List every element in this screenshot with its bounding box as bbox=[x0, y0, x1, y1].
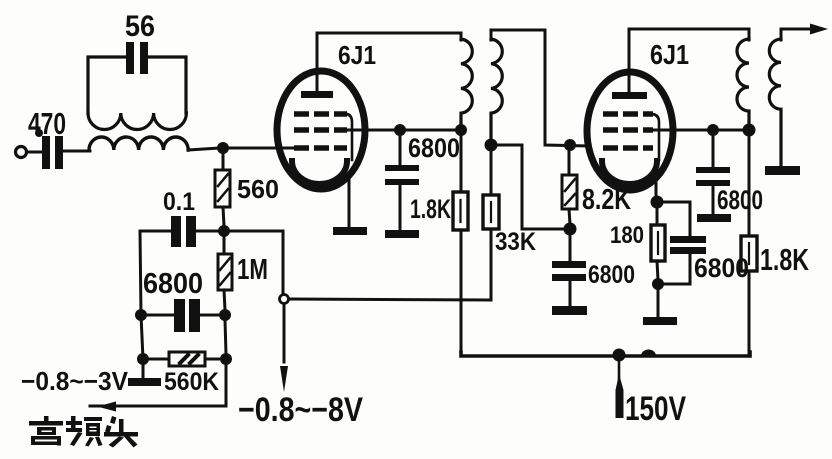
wire bbox=[27, 151, 42, 154]
svg-text:470: 470 bbox=[28, 106, 66, 141]
V1 top wire bbox=[317, 33, 461, 40]
svg-text:6800: 6800 bbox=[408, 133, 460, 163]
svg-text:1.8K: 1.8K bbox=[410, 194, 451, 224]
capacitor C1 470 bbox=[35, 129, 63, 169]
input terminal J1 bbox=[16, 147, 27, 158]
V2 plate bbox=[612, 92, 647, 99]
V1 grid rows bbox=[294, 114, 347, 148]
wire to V1 grid bbox=[228, 147, 295, 150]
wire bbox=[188, 148, 220, 150]
glyph 频 bbox=[71, 416, 76, 430]
AGC out wire to tuner bbox=[90, 364, 226, 406]
resistor R5 33K bbox=[490, 150, 493, 195]
V2 screen wire bbox=[653, 129, 749, 132]
tube V1 6J1 bbox=[277, 71, 365, 189]
svg-text:180: 180 bbox=[610, 222, 644, 249]
capacitor C8 6800 screen bypass bbox=[712, 135, 715, 167]
V2 top wire bbox=[629, 29, 749, 40]
V2 cathode bbox=[602, 161, 657, 184]
ground V1 cathode bbox=[333, 227, 367, 235]
resistor R3 560K bbox=[148, 358, 169, 361]
capacitor C5 6800 bbox=[399, 135, 402, 167]
node sec bottom bbox=[485, 139, 498, 152]
resistor R4 1.8K bbox=[460, 135, 463, 192]
capacitor C2 56 bbox=[126, 42, 148, 74]
transformer T1 primary bbox=[461, 39, 472, 126]
svg-text:0.1: 0.1 bbox=[163, 188, 195, 216]
resistor R7 180 bbox=[656, 207, 659, 225]
transformer T1 secondary bbox=[491, 30, 588, 146]
capacitor C6 6800 bbox=[569, 234, 572, 261]
V1 suppressor tie bbox=[347, 114, 352, 160]
svg-text:33K: 33K bbox=[495, 228, 536, 256]
V2 grid rows bbox=[603, 114, 653, 148]
svg-text:1M: 1M bbox=[237, 254, 268, 286]
V1 screen wire bbox=[347, 129, 461, 132]
transformer T2 primary bbox=[737, 39, 749, 126]
tube V2 6J1 bbox=[587, 72, 673, 190]
wire left column bbox=[140, 231, 143, 359]
svg-text:6800: 6800 bbox=[588, 261, 635, 289]
B+ bus 150V bbox=[461, 352, 750, 356]
node cath bias bottom bbox=[652, 278, 664, 290]
node AGC open bbox=[280, 295, 289, 304]
svg-text:6800: 6800 bbox=[717, 185, 763, 215]
ground T2 bbox=[765, 166, 800, 175]
wire bbox=[63, 150, 90, 153]
V1 cathode bbox=[292, 161, 347, 184]
capacitor C7 6800 cathode bbox=[662, 202, 690, 236]
svg-text:560K: 560K bbox=[164, 368, 219, 396]
node grid2 bbox=[564, 139, 576, 151]
inductor L1 bbox=[89, 137, 188, 150]
arrow -8V bbox=[280, 366, 288, 392]
node cath2 net bbox=[564, 223, 577, 236]
svg-text:6J1: 6J1 bbox=[650, 39, 689, 70]
V2 suppressor tie bbox=[653, 114, 659, 160]
resistor R2 1M bbox=[223, 236, 226, 254]
node cath2 bbox=[651, 196, 664, 209]
resistor R8 1.8K bbox=[748, 135, 751, 236]
resistor R6 8.2K bbox=[568, 150, 571, 175]
label 高频头 (hand-drawn CJK) bbox=[29, 416, 138, 448]
resistor R1 560 bbox=[222, 153, 225, 170]
V1 plate bbox=[301, 91, 333, 98]
wire 0.1 node to AGC column bbox=[229, 230, 283, 233]
capacitor C4 6800 bbox=[135, 309, 147, 321]
svg-text:−0.8~−8V: −0.8~−8V bbox=[238, 391, 363, 429]
glyph 头 bbox=[110, 416, 117, 424]
svg-text:560: 560 bbox=[237, 174, 279, 204]
AGC wire to 33K bbox=[289, 299, 491, 300]
glyph 高 bbox=[44, 416, 49, 422]
svg-text:−0.8~−3V: −0.8~−3V bbox=[21, 366, 129, 396]
svg-text:56: 56 bbox=[125, 10, 155, 43]
capacitor C3 0.1 bbox=[197, 230, 219, 233]
bias terminal -3V bbox=[142, 364, 145, 378]
node n02 bbox=[137, 353, 149, 365]
AGC column bbox=[282, 231, 285, 294]
node grid1 bbox=[217, 142, 229, 154]
svg-text:6J1: 6J1 bbox=[338, 40, 376, 70]
node n01 bbox=[218, 225, 230, 237]
svg-text:1.8K: 1.8K bbox=[760, 242, 809, 277]
transformer T2 secondary bbox=[781, 29, 809, 40]
svg-text:150V: 150V bbox=[625, 390, 686, 428]
inductor L2 tank loop bbox=[88, 57, 126, 113]
svg-text:6800: 6800 bbox=[143, 268, 203, 300]
